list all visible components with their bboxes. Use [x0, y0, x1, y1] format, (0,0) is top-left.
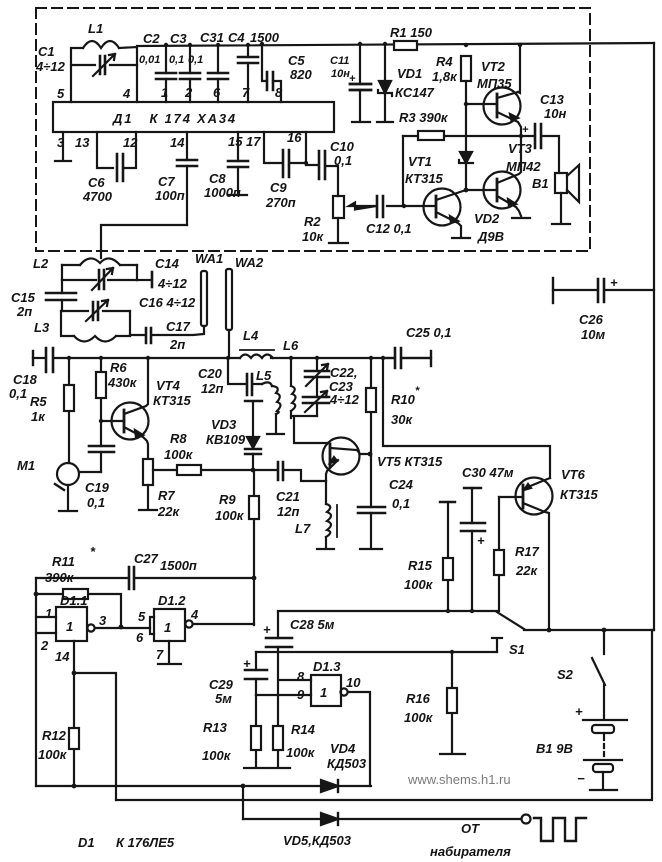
svg-text:C18: C18	[13, 372, 38, 387]
svg-text:0,1: 0,1	[334, 153, 352, 168]
svg-text:www.shems.h1.ru: www.shems.h1.ru	[407, 772, 511, 787]
diode VD5	[321, 813, 338, 825]
transistor VT1 KT315	[402, 189, 470, 239]
svg-text:R8: R8	[170, 431, 187, 446]
varicap diode VD3 KB109	[245, 401, 262, 472]
svg-text:VT6: VT6	[561, 467, 586, 482]
wire dial line	[243, 818, 520, 820]
svg-text:WA1: WA1	[195, 251, 223, 266]
capacitor C24	[358, 455, 385, 549]
top supply bus wire	[137, 43, 654, 46]
resistor R6 430k	[96, 356, 106, 446]
svg-text:C24: C24	[389, 477, 414, 492]
resistor R7 22k	[139, 459, 157, 510]
transistor VT2 MP35	[466, 43, 522, 136]
svg-text:R14: R14	[291, 722, 316, 737]
capacitor C3	[180, 43, 200, 102]
svg-text:C11: C11	[330, 55, 349, 67]
svg-text:VD4: VD4	[330, 741, 356, 756]
label OT nabiratelya	[430, 821, 511, 859]
svg-text:1,8к: 1,8к	[432, 69, 458, 84]
svg-text:R11: R11	[52, 554, 75, 569]
svg-text:C5: C5	[288, 53, 305, 68]
capacitor C5	[260, 42, 281, 102]
svg-text:C19: C19	[85, 480, 110, 495]
capacitor C26 polarized with stub terminal	[553, 278, 654, 303]
svg-text:30к: 30к	[391, 412, 413, 427]
right edge supply wire	[653, 43, 655, 630]
svg-text:C30 47м: C30 47м	[462, 465, 514, 480]
svg-text:4: 4	[122, 86, 131, 101]
svg-text:R4: R4	[436, 54, 453, 69]
svg-text:−: −	[577, 771, 585, 786]
transistor VT4 KT315	[101, 356, 150, 459]
svg-text:L7: L7	[295, 521, 311, 536]
inductor L5	[262, 382, 284, 434]
svg-text:R6: R6	[110, 360, 127, 375]
svg-text:6: 6	[213, 85, 221, 100]
svg-text:16: 16	[287, 130, 302, 145]
svg-text:Д9В: Д9В	[477, 229, 504, 244]
svg-text:270п: 270п	[265, 195, 296, 210]
svg-text:22к: 22к	[157, 504, 180, 519]
logic gate D1.3	[256, 675, 370, 786]
svg-text:D1: D1	[78, 835, 95, 850]
svg-text:VT4: VT4	[156, 378, 181, 393]
svg-text:4÷12: 4÷12	[157, 276, 188, 291]
diode VD2 D9V	[459, 104, 473, 192]
svg-text:2п: 2п	[169, 337, 185, 352]
svg-text:C6: C6	[88, 175, 105, 190]
svg-text:1: 1	[66, 619, 73, 634]
svg-text:0,1: 0,1	[392, 496, 410, 511]
capacitor C13 polarized	[521, 124, 559, 173]
IC D1 K174XA34 body	[53, 102, 334, 132]
svg-text:D1.2: D1.2	[158, 593, 186, 608]
svg-text:R1 150: R1 150	[390, 25, 433, 40]
svg-text:L3: L3	[34, 320, 50, 335]
svg-text:1: 1	[45, 606, 52, 621]
capacitor C10	[306, 151, 338, 196]
capacitor C12	[377, 196, 404, 217]
svg-text:3: 3	[57, 135, 65, 150]
svg-text:+: +	[477, 533, 485, 548]
svg-text:10: 10	[346, 675, 361, 690]
svg-text:12п: 12п	[201, 381, 223, 396]
svg-text:VT5 КТ315: VT5 КТ315	[377, 454, 443, 469]
resistor R16 100k with ground	[440, 650, 465, 754]
svg-text:К 176ЛЕ5: К 176ЛЕ5	[116, 835, 175, 850]
svg-text:КТ315: КТ315	[560, 487, 599, 502]
wire R11/C27 top line	[36, 577, 254, 579]
battery B1 9V	[583, 685, 627, 790]
svg-text:17: 17	[246, 134, 261, 149]
svg-text:R10: R10	[391, 392, 416, 407]
svg-text:C2: C2	[143, 31, 160, 46]
svg-text:13: 13	[75, 135, 90, 150]
antenna WA1	[201, 271, 207, 326]
wire bottom rail A	[36, 785, 371, 787]
capacitor C25 with stub terminal	[381, 348, 431, 368]
capacitor C11 polarized	[350, 42, 371, 122]
svg-text:4÷12: 4÷12	[329, 392, 360, 407]
svg-text:R16: R16	[406, 691, 431, 706]
svg-text:C7: C7	[158, 174, 175, 189]
wire lower rail to S1	[256, 651, 497, 653]
svg-text:10к: 10к	[302, 229, 324, 244]
capacitor C7 on pin 14	[177, 132, 197, 225]
svg-text:100к: 100к	[404, 577, 434, 592]
resistor R17 22k	[494, 497, 504, 611]
svg-text:КД503: КД503	[327, 756, 367, 771]
svg-text:7: 7	[242, 85, 250, 100]
svg-text:390к: 390к	[45, 570, 75, 585]
svg-text:КВ109: КВ109	[206, 432, 246, 447]
svg-text:+: +	[610, 275, 618, 290]
svg-text:C3: C3	[170, 31, 187, 46]
capacitor C8 on pin 15 with ground	[228, 132, 248, 195]
svg-text:S2: S2	[557, 667, 574, 682]
svg-text:C12 0,1: C12 0,1	[366, 221, 412, 236]
svg-text:C4: C4	[228, 30, 245, 45]
svg-text:VD1: VD1	[397, 66, 422, 81]
variable capacitor C23	[303, 391, 329, 416]
inductor L3 tank bottom	[61, 311, 130, 342]
svg-text:L6: L6	[283, 338, 299, 353]
inductor L6	[289, 356, 296, 418]
transistor VT6 KT315	[499, 478, 553, 633]
svg-text:10м: 10м	[581, 327, 605, 342]
resistor R14 100k with ground	[268, 726, 290, 768]
dashed receiver enclosure	[36, 8, 590, 251]
variable capacitor C22	[305, 356, 329, 397]
microphone M1	[55, 463, 101, 511]
svg-text:7: 7	[156, 647, 164, 662]
speaker B1	[552, 165, 579, 224]
svg-text:C13: C13	[540, 92, 565, 107]
svg-text:100к: 100к	[164, 447, 194, 462]
svg-text:VD5,КД503: VD5,КД503	[283, 833, 352, 848]
svg-text:C28 5м: C28 5м	[290, 617, 335, 632]
svg-text:8: 8	[297, 669, 305, 684]
svg-text:C17: C17	[166, 319, 191, 334]
wire L6/C23 to VT5 base	[291, 416, 328, 443]
switch S2	[592, 628, 606, 685]
svg-text:WA2: WA2	[235, 255, 264, 270]
svg-text:5: 5	[57, 86, 65, 101]
transistor VT5 KT315	[323, 438, 373, 482]
svg-text:КС147: КС147	[395, 85, 435, 100]
svg-text:0,1: 0,1	[169, 54, 184, 66]
svg-text:C22,: C22,	[330, 365, 357, 380]
svg-text:100к: 100к	[202, 748, 232, 763]
svg-text:1: 1	[320, 685, 327, 700]
svg-text:10н: 10н	[544, 106, 566, 121]
svg-text:100к: 100к	[215, 508, 245, 523]
inductor L2 tank top	[62, 258, 137, 280]
svg-text:C20: C20	[198, 366, 223, 381]
capacitor C18 with stub terminal	[33, 348, 53, 372]
wire oscillator left rail	[35, 578, 37, 786]
svg-text:100п: 100п	[155, 188, 185, 203]
svg-text:C21: C21	[276, 489, 300, 504]
svg-text:S1: S1	[509, 642, 525, 657]
trimmer stub C14 terminal	[137, 272, 152, 287]
svg-text:0,1: 0,1	[87, 495, 105, 510]
svg-text:L2: L2	[33, 256, 49, 271]
zener diode VD1 KC147	[377, 42, 393, 122]
wire C28 rail left end	[277, 612, 279, 638]
svg-text:VT2: VT2	[481, 59, 506, 74]
svg-text:22к: 22к	[515, 563, 538, 578]
svg-text:VT3: VT3	[508, 141, 533, 156]
switch S1	[492, 612, 524, 652]
svg-text:5м: 5м	[215, 691, 232, 706]
capacitor C19	[89, 446, 114, 472]
capacitor C4	[238, 43, 258, 102]
logic gate D1.1	[36, 607, 150, 641]
svg-text:1500п: 1500п	[160, 558, 197, 573]
svg-text:0,1: 0,1	[188, 54, 203, 66]
svg-text:D1.1: D1.1	[60, 593, 87, 608]
svg-text:R12: R12	[42, 728, 67, 743]
svg-text:14: 14	[170, 135, 185, 150]
resistor R11 390k feedback	[34, 589, 124, 629]
svg-text:C9: C9	[270, 180, 287, 195]
svg-text:C10: C10	[330, 139, 355, 154]
resistor R15 100k with stub terminal	[440, 502, 455, 613]
svg-text:100к: 100к	[404, 710, 434, 725]
wire branch down to dial line	[241, 784, 246, 819]
label D1 K176LE5	[78, 835, 175, 850]
svg-text:C26: C26	[579, 312, 604, 327]
svg-text:В1 9В: В1 9В	[536, 741, 573, 756]
svg-text:14: 14	[55, 649, 70, 664]
svg-text:+: +	[243, 656, 251, 671]
svg-text:0,01: 0,01	[139, 54, 160, 66]
svg-text:4700: 4700	[82, 189, 113, 204]
svg-text:R5: R5	[30, 394, 47, 409]
bottom frame wire	[116, 630, 652, 800]
potentiometer R2 with wiper and ground	[329, 196, 376, 243]
svg-text:R15: R15	[408, 558, 433, 573]
svg-text:КТ315: КТ315	[153, 393, 192, 408]
svg-text:+: +	[575, 704, 583, 719]
resistor R4 1.8k	[461, 43, 471, 106]
svg-text:R17: R17	[515, 544, 540, 559]
svg-text:КТ315: КТ315	[405, 171, 444, 186]
inductor L1 tank with C1	[71, 41, 137, 102]
svg-text:1000п: 1000п	[204, 185, 241, 200]
wire C28 top rail	[278, 610, 497, 612]
capacitor C20	[226, 356, 262, 395]
svg-text:820: 820	[290, 67, 312, 82]
svg-text:12: 12	[123, 135, 138, 150]
svg-text:набирателя: набирателя	[430, 844, 511, 859]
svg-text:100к: 100к	[38, 747, 68, 762]
wire pin14 to L2 tank	[101, 225, 187, 258]
wire pin14 branch to bottom frame	[74, 673, 116, 800]
main middle bus wire	[54, 357, 431, 359]
svg-text:C31: C31	[200, 30, 224, 45]
pulse waveform symbol	[534, 818, 586, 841]
wire bus branch to VT6	[383, 358, 550, 478]
svg-text:1500: 1500	[250, 30, 280, 45]
svg-text:1: 1	[161, 85, 168, 100]
svg-text:МП35: МП35	[477, 76, 512, 91]
capacitor C17	[130, 326, 204, 343]
inductor L4 on bus	[240, 350, 274, 358]
svg-text:2: 2	[40, 638, 49, 653]
svg-text:2: 2	[184, 85, 193, 100]
wire switched power rail	[524, 629, 654, 631]
label C1 4:12	[35, 44, 66, 74]
variable capacitor C16 line of L3 tank	[61, 300, 130, 321]
terminal circle	[522, 815, 531, 824]
capacitor C9 from pin 17	[264, 132, 306, 177]
variable capacitor C14 inside tank	[62, 268, 137, 290]
svg-text:+: +	[263, 622, 271, 637]
svg-text:0,1: 0,1	[9, 386, 27, 401]
svg-text:М1: М1	[17, 458, 35, 473]
capacitor C6 between pins 13 and 12	[97, 132, 136, 181]
svg-text:R3 390к: R3 390к	[399, 110, 449, 125]
capacitor C2	[156, 43, 176, 102]
svg-text:3: 3	[99, 613, 107, 628]
svg-text:4: 4	[190, 607, 199, 622]
svg-text:2п: 2п	[16, 304, 32, 319]
wire C27 down to D1.2 output	[252, 576, 257, 625]
svg-text:R9: R9	[219, 492, 236, 507]
svg-text:VT1: VT1	[408, 154, 432, 169]
svg-text:9: 9	[297, 687, 305, 702]
svg-text:6: 6	[136, 630, 144, 645]
svg-text:МП42: МП42	[506, 159, 541, 174]
resistor R5 1k	[64, 356, 74, 463]
svg-text:C15: C15	[11, 290, 36, 305]
svg-text:15: 15	[228, 134, 243, 149]
svg-text:L4: L4	[243, 328, 259, 343]
svg-text:C14: C14	[155, 256, 180, 271]
labels VD4 KD503	[327, 741, 367, 771]
resistor R3 390k feedback	[403, 131, 521, 206]
svg-text:VD2: VD2	[474, 211, 500, 226]
svg-text:1: 1	[164, 620, 171, 635]
svg-text:L5: L5	[256, 368, 272, 383]
svg-text:10н: 10н	[331, 68, 350, 80]
svg-text:12п: 12п	[277, 504, 299, 519]
svg-text:L1: L1	[88, 21, 103, 36]
svg-text:C29: C29	[209, 677, 234, 692]
svg-text:R13: R13	[203, 720, 228, 735]
svg-text:C27: C27	[134, 551, 159, 566]
svg-text:C25 0,1: C25 0,1	[406, 325, 452, 340]
svg-text:VD3: VD3	[211, 417, 237, 432]
pin 3 with ground stub	[55, 132, 71, 161]
capacitor C31	[208, 43, 228, 102]
capacitor C30 polarized with stub terminal	[461, 488, 485, 613]
antenna WA2	[226, 269, 232, 358]
resistor R12 100k	[69, 671, 79, 789]
svg-text:C1: C1	[38, 44, 55, 59]
svg-text:Д1 К 174 ХА34: Д1 К 174 ХА34	[112, 111, 237, 126]
svg-text:*: *	[415, 385, 420, 397]
diode VD4	[321, 780, 338, 792]
capacitor C21	[253, 462, 326, 481]
svg-text:R2: R2	[304, 214, 321, 229]
resistor R10 30k	[366, 356, 376, 455]
svg-text:+: +	[522, 124, 529, 136]
svg-text:ОТ: ОТ	[461, 821, 480, 836]
svg-text:430к: 430к	[107, 375, 138, 390]
resistor R13 100k with ground	[244, 695, 266, 768]
capacitor C27 1500p	[129, 567, 134, 589]
svg-text:C8: C8	[209, 171, 226, 186]
capacitor C28 polarized	[266, 638, 292, 726]
resistor R8 100k	[153, 465, 253, 475]
svg-text:R7: R7	[158, 488, 175, 503]
resistor R9 100k on varicap feed	[249, 470, 259, 578]
svg-text:D1.3: D1.3	[313, 659, 341, 674]
logic gate D1.2	[150, 609, 254, 664]
svg-text:+: +	[349, 73, 356, 85]
inductor L7	[317, 481, 337, 549]
wire D1.1 pin14 down	[73, 641, 75, 786]
resistor R1 150	[394, 41, 417, 50]
capacitor C29 polarized	[245, 652, 267, 695]
svg-text:В1: В1	[532, 176, 549, 191]
transistor VT3 MP42	[466, 134, 530, 218]
svg-text:100к: 100к	[286, 745, 316, 760]
pin 16 wire	[304, 132, 308, 165]
svg-text:4÷12: 4÷12	[35, 59, 66, 74]
capacitor C15	[46, 280, 76, 311]
svg-text:5: 5	[138, 609, 146, 624]
svg-text:8: 8	[275, 85, 283, 100]
svg-text:C16 4÷12: C16 4÷12	[139, 295, 196, 310]
svg-text:1к: 1к	[31, 409, 46, 424]
